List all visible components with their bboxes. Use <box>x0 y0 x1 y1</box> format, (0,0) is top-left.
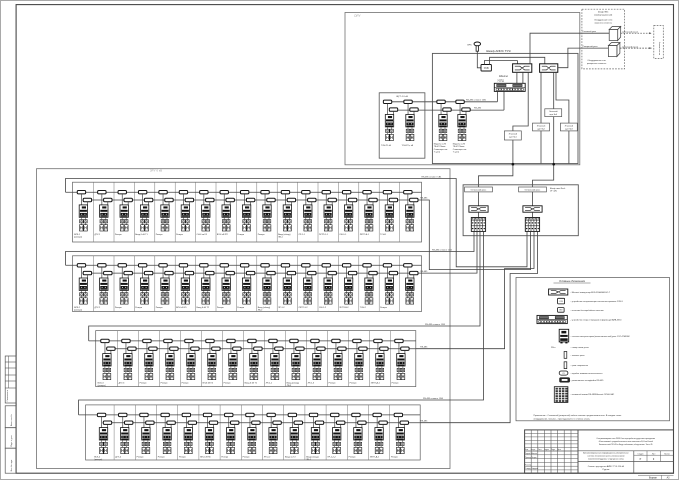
svg-text:- клеммный зажим RS-485/Ethern: - клеммный зажим RS-485/Ethernet СК500-2… <box>571 393 615 396</box>
meter row3 cell4 <box>161 339 179 384</box>
svg-text:Специализированная ЗИФ-3 по пе: Специализированная ЗИФ-3 по переработке … <box>596 437 655 440</box>
meter row2 cell15 <box>360 264 378 309</box>
ethernet switch SW1 <box>513 64 532 73</box>
USV time sync unit <box>481 65 491 72</box>
svg-text:RS-485 сегмент СВ2: RS-485 сегмент СВ2 <box>432 249 453 251</box>
divider row2 <box>93 256 95 312</box>
to-all-rooms dashed box <box>654 26 664 59</box>
svg-text:RS-485 сегмент СВ1: RS-485 сегмент СВ1 <box>422 176 443 178</box>
divider row3 <box>221 331 223 387</box>
svg-text:ЛР-1-3: ЛР-1-3 <box>308 383 315 385</box>
wire X1 to ports <box>478 212 480 217</box>
svg-text:Резерв: Резерв <box>158 457 166 459</box>
svg-text:Рудник: Рудник <box>603 469 610 471</box>
meter row3 cell6 <box>203 339 221 384</box>
svg-text:Согласовано: Согласовано <box>7 390 9 401</box>
tag box floor 2 <box>533 123 550 131</box>
divider row1 <box>378 182 380 242</box>
divider row1 <box>174 182 176 242</box>
cube head node <box>609 27 621 30</box>
svg-text:Ethernet: Ethernet <box>499 75 508 78</box>
divider row1 <box>154 182 156 242</box>
svg-text:ВЛ-6 кВ РП: ВЛ-6 кВ РП <box>217 234 228 236</box>
margin box Взам. инв. № <box>5 406 16 428</box>
svg-text:RS-485: RS-485 <box>420 346 428 348</box>
svg-text:ЛКТП-1-2: ЛКТП-1-2 <box>299 307 309 309</box>
svg-text:Резерв: Резерв <box>380 307 388 309</box>
meter row2 cell5 <box>156 264 174 309</box>
svg-text:«Коксохимия» градообогатительн: «Коксохимия» градообогатительного компле… <box>599 440 653 443</box>
svg-text:ЛР-1-2: ЛР-1-2 <box>278 307 285 309</box>
meter row1 cell3 <box>115 191 132 236</box>
divider row2 <box>297 256 299 312</box>
divider row1 <box>337 182 339 242</box>
svg-text:- Ethernet коммутатор EDS-516A: - Ethernet коммутатор EDS-516A-MM-SC-T <box>571 291 611 294</box>
bus1 row 1 <box>66 191 422 193</box>
divider row4 <box>240 405 242 460</box>
svg-text:ДГУ-4: ДГУ-4 <box>115 457 122 459</box>
title block outer <box>525 430 674 473</box>
bus1 row 2 <box>66 264 422 266</box>
meter row3 cell15 <box>392 339 410 384</box>
divider row4 <box>219 405 221 460</box>
bus RS-485 segment SV5 <box>385 101 497 103</box>
svg-text:Кол.уч: Кол.уч <box>531 449 536 451</box>
svg-text:Резерв: Резерв <box>243 457 251 459</box>
divider row3 <box>368 331 370 387</box>
svg-text:ТСН-Р2,х кВ: ТСН-Р2,х кВ <box>402 145 414 147</box>
meter row4 cell8 <box>243 413 261 458</box>
svg-text:- коробка зажимов испытательна: - коробка зажимов испытательная <box>571 373 603 375</box>
svg-text:Резерв: Резерв <box>258 234 266 236</box>
svg-text:- устройство синхронизации сис: - устройство синхронизации системного вр… <box>571 300 624 303</box>
svg-text:ЛР-2-1: ЛР-2-1 <box>266 383 273 385</box>
format cell <box>638 474 674 476</box>
meter row1 cell2 <box>95 191 113 236</box>
divider row2 <box>399 256 401 312</box>
meter SHUT-4 <box>453 100 470 153</box>
svg-text:ЗКТП-А-1: ЗКТП-А-1 <box>371 382 381 385</box>
svg-text:СШ-1-2: СШ-1-2 <box>319 307 327 309</box>
svg-text:щит №1: щит №1 <box>509 136 517 139</box>
meter row1 cell7 <box>197 191 215 236</box>
svg-text:Автоматизированная информацион: Автоматизированная информационно-измерит… <box>583 452 628 455</box>
meter row4 cell5 <box>179 413 197 458</box>
GPS antenna <box>474 42 481 46</box>
svg-text:Резерв: Резерв <box>115 307 123 309</box>
svg-text:СШ-1-1: СШ-1-1 <box>339 234 347 236</box>
divider row2 <box>215 256 217 312</box>
svg-text:RS-485: RS-485 <box>420 420 428 422</box>
wire bus SV2 row2 to PB1 <box>66 231 475 265</box>
legend UPS <box>558 308 565 313</box>
meter row2 cell1 <box>74 264 92 312</box>
svg-text:оборудования, показан - прокла: оборудования, показан - прокладывается в… <box>534 419 591 421</box>
meter row4 cell2 <box>115 413 132 458</box>
wire RS-485 row3 to PB2 <box>416 231 534 348</box>
svg-text:Резерв: Резерв <box>391 457 399 459</box>
divider row1 <box>358 182 360 242</box>
meter row4 cell4 <box>158 413 176 458</box>
port block PB2 <box>525 218 539 232</box>
meter row3 cell10 <box>287 339 305 387</box>
divider row4 <box>198 405 200 460</box>
divider row3 <box>179 331 181 387</box>
divider row4 <box>368 405 370 460</box>
meter row4 cell11 <box>306 413 324 461</box>
divider row2 <box>113 256 115 312</box>
media converter X1 <box>469 206 488 212</box>
divider row1 <box>276 182 278 242</box>
meter row3 cell9 <box>266 339 284 384</box>
svg-text:Лист: Лист <box>538 449 542 451</box>
title block project name cell <box>578 450 674 452</box>
svg-text:ЛКТП-В-2: ЛКТП-В-2 <box>339 307 349 309</box>
wire USV to switch 1 <box>484 61 517 65</box>
row 3 feeder box <box>96 331 416 387</box>
svg-text:Оптический кросс: Оптический кросс <box>525 189 541 192</box>
svg-text:ДГУ-1: ДГУ-1 <box>95 234 102 236</box>
meter row1 cell13 <box>319 191 337 236</box>
divider row1 <box>297 182 299 242</box>
svg-text:Резерв: Резерв <box>329 383 337 385</box>
junction dot A <box>512 163 515 166</box>
wire bus SV3 row3 to PB1 <box>89 231 480 341</box>
legend ethernet switch <box>549 289 568 295</box>
svg-text:Резерв: Резерв <box>237 307 245 309</box>
meter row1 cell9 <box>237 191 255 236</box>
meter row3 cell7 <box>224 339 242 384</box>
svg-text:Инв. № подл.: Инв. № подл. <box>10 459 13 471</box>
svg-text:Резервный узел: Резервный узел <box>583 45 599 48</box>
svg-text:Схема структурная АИИС ТУЭ 110: Схема структурная АИИС ТУЭ 110 кВ <box>588 465 625 468</box>
divider row4 <box>262 405 264 460</box>
margin box Инв. № подл. <box>5 448 16 473</box>
bus1 row 3 <box>89 340 416 342</box>
svg-text:Резерв: Резерв <box>140 383 148 385</box>
svg-text:- номер точки учета: - номер точки учета <box>571 347 590 349</box>
svg-text:Т цепи: Т цепи <box>453 151 459 153</box>
bus2 row 2 <box>82 272 421 274</box>
meter row2 cell12 <box>299 264 317 309</box>
divider row1 <box>195 182 197 242</box>
svg-text:Резерв: Резерв <box>156 234 164 236</box>
meter SHUT-1 <box>381 100 398 147</box>
svg-text:РН-х: РН-х <box>551 347 555 349</box>
divider row1 <box>113 182 115 242</box>
divider row1 <box>133 182 135 242</box>
divider row4 <box>346 405 348 460</box>
svg-text:Примечание - Стояковый (резерв: Примечание - Стояковый (резервный) кабел… <box>534 414 623 417</box>
svg-text:система технического учета эле: система технического учета электроэнерги… <box>587 456 624 458</box>
meter row1 cell16 <box>380 191 398 236</box>
meter row3 cell12 <box>329 339 347 384</box>
svg-text:- устройство сбора и передачи: - устройство сбора и передачи информации… <box>571 319 623 322</box>
svg-text:ЛКТП-В-1: ЛКТП-В-1 <box>360 234 370 236</box>
svg-text:Резерв: Резерв <box>179 457 187 459</box>
svg-text:Условные обозначения: Условные обозначения <box>559 280 586 283</box>
wire RS-485 row4 to PB2 <box>420 231 537 422</box>
wire RS-485 row2 to PB1 <box>422 231 478 273</box>
svg-text:ДГУ-3: ДГУ-3 <box>119 383 126 385</box>
meter row4 cell10 <box>285 413 303 458</box>
wire cross 1 <box>478 192 480 206</box>
meter row3 cell2 <box>119 339 137 384</box>
meter row4 cell1 <box>94 413 112 461</box>
svg-text:ОРУ: ОРУ <box>354 14 362 18</box>
svg-text:Оборудование сети: Оборудование сети <box>594 20 612 22</box>
svg-text:RS-485 сегмент СВ4: RS-485 сегмент СВ4 <box>423 398 444 400</box>
svg-text:ТСН-2: ТСН-2 <box>360 307 367 309</box>
legend box <box>516 278 670 421</box>
row 4 feeder box <box>86 405 421 460</box>
svg-text:Оптический кросс: Оптический кросс <box>471 189 487 192</box>
svg-text:RS-485 сегмент СВ3: RS-485 сегмент СВ3 <box>425 324 446 326</box>
divider row1 <box>93 182 95 242</box>
meter row2 cell11 <box>278 264 296 309</box>
meter row2 cell4 <box>135 264 153 309</box>
meter row3 cell3 <box>140 339 158 384</box>
divider row4 <box>134 405 136 460</box>
svg-text:Резерв: Резерв <box>349 457 357 459</box>
svg-text:Резерв: Резерв <box>221 457 229 459</box>
wire bus SV4 row4 to PB1 <box>79 231 484 415</box>
svg-text:Этажный: Этажный <box>549 110 557 113</box>
meter row3 cell14 <box>371 339 389 384</box>
legend RS-485 splitter <box>560 378 570 382</box>
svg-text:Шкаф АИИС ТУЭ: Шкаф АИИС ТУЭ <box>486 49 511 53</box>
row 1 feeder box <box>73 182 422 242</box>
meter row4 cell15 <box>391 413 409 458</box>
svg-text:Лист: Лист <box>652 453 656 455</box>
divider row2 <box>317 256 319 312</box>
divider row2 <box>235 256 237 312</box>
bus2 row 4 <box>103 422 421 424</box>
svg-text:Резерв: Резерв <box>224 383 232 385</box>
title block left grid <box>530 430 532 473</box>
meter row1 cell17 <box>404 191 418 232</box>
svg-text:ЛКТП-1-1: ЛКТП-1-1 <box>319 234 329 236</box>
divider row4 <box>156 405 158 460</box>
cube reserve node <box>608 43 620 46</box>
svg-text:Взам. инв. №: Взам. инв. № <box>10 414 13 426</box>
divider row2 <box>195 256 197 312</box>
svg-text:Изм.: Изм. <box>525 449 529 451</box>
svg-text:RS-485: RS-485 <box>420 271 428 273</box>
svg-text:Ввод 6 кВ Т1: Ввод 6 кВ Т1 <box>135 234 148 236</box>
svg-text:Резерв: Резерв <box>156 307 164 309</box>
svg-text:Оборудование сети: Оборудование сети <box>587 60 605 62</box>
wire USPD to bus SV5 <box>496 91 498 101</box>
divider row3 <box>200 331 202 387</box>
SHUT cabinet box <box>379 93 425 158</box>
svg-text:(коммутационный): (коммутационный) <box>594 13 612 16</box>
divider row3 <box>158 331 160 387</box>
svg-text:- счетчик электроэнергии (вычи: - счетчик электроэнергии (вычислительный… <box>571 335 630 338</box>
svg-text:RS-485: RS-485 <box>474 108 482 110</box>
svg-text:- источник бесперебойного пита: - источник бесперебойного питания <box>571 309 604 312</box>
svg-text:RS-485: RS-485 <box>420 198 428 200</box>
rack server box <box>463 185 578 236</box>
wire X2 to ports <box>532 212 534 217</box>
divider row4 <box>177 405 179 460</box>
meter row4 cell6 <box>200 413 218 458</box>
meter row1 cell15 <box>360 191 378 236</box>
svg-text:Резерв: Резерв <box>161 383 169 385</box>
divider row2 <box>256 256 258 312</box>
divider row3 <box>116 331 118 387</box>
bus RS-485 (SHUT) <box>391 109 504 111</box>
wire cross 2 <box>532 192 534 206</box>
meter row2 cell14 <box>339 264 357 309</box>
bus2 row 3 <box>106 348 416 350</box>
divider row4 <box>325 405 327 460</box>
divider row3 <box>305 331 307 387</box>
svg-text:ДГУ-2: ДГУ-2 <box>95 307 102 309</box>
divider row2 <box>337 256 339 312</box>
svg-text:Резерв: Резерв <box>176 234 184 236</box>
svg-text:Н.контр.: Н.контр. <box>525 464 532 466</box>
svg-text:- разветвитель интерфейса RS-4: - разветвитель интерфейса RS-485 <box>571 379 605 382</box>
svg-text:Шкаф ЛВС: Шкаф ЛВС <box>598 11 609 14</box>
meter row2 cell16 <box>380 264 398 309</box>
meter row4 cell13 <box>349 413 367 458</box>
legend voltage circuits <box>564 362 567 369</box>
svg-text:Головной узел: Головной узел <box>583 30 597 33</box>
meter row4 cell12 <box>327 413 345 458</box>
svg-text:RS-485 сегмент СВ5: RS-485 сегмент СВ5 <box>466 99 487 101</box>
USPD data collector <box>494 83 525 91</box>
wire SW1 to junction A <box>479 72 529 187</box>
title block stage grid <box>633 451 635 473</box>
meter SHUT-3 <box>434 100 451 153</box>
divider row3 <box>263 331 265 387</box>
meter row2 cell8 <box>217 264 235 309</box>
meter row1 cell4 <box>135 191 153 236</box>
svg-text:ЛР-1-2-2: ЛР-1-2-2 <box>327 457 336 459</box>
meter row4 cell3 <box>137 413 155 458</box>
svg-text:Этажный: Этажный <box>565 124 573 127</box>
legend terminal clamp <box>554 387 568 403</box>
wire USPD to bus RS-485 <box>503 91 505 110</box>
divider row2 <box>358 256 360 312</box>
legend test terminal box <box>559 371 568 375</box>
svg-text:УСПД: УСПД <box>497 81 504 83</box>
svg-text:(резерв): (резерв) <box>74 310 82 312</box>
divider row3 <box>137 331 139 387</box>
svg-text:Этажный: Этажный <box>509 133 517 136</box>
margin column upper (approvals) <box>5 356 16 403</box>
svg-text:Резерв: Резерв <box>237 234 245 236</box>
svg-text:Иванов: Иванов <box>531 453 537 455</box>
cabinet AIIS TUE box <box>432 53 578 163</box>
svg-text:ВЛ-6 кВ К5: ВЛ-6 кВ К5 <box>203 383 214 385</box>
meter row4 cell7 <box>221 413 239 458</box>
wire SW2 uplink to LAN reserve node <box>558 48 609 68</box>
meter row2 cell17 <box>404 264 418 305</box>
wire GPS to USV <box>477 51 481 68</box>
svg-text:Кокпатасской ПО-69-и Барун-обь: Кокпатасской ПО-69-и Барун-обьемом, п/от… <box>599 443 653 446</box>
svg-text:ЛР-1-1: ЛР-1-1 <box>299 234 306 236</box>
svg-text:ТСН-1: ТСН-1 <box>380 234 387 236</box>
svg-text:Листов: Листов <box>664 453 670 455</box>
svg-text:Подп.: Подп. <box>551 449 556 451</box>
media converter X2 <box>523 206 542 212</box>
divider row2 <box>378 256 380 312</box>
junction dot B <box>552 163 555 166</box>
divider row1 <box>317 182 319 242</box>
divider row4 <box>283 405 285 460</box>
row 2 feeder box <box>73 256 422 312</box>
port block PB1 <box>471 218 485 232</box>
svg-text:ЩУТ-1 6 кВ: ЩУТ-1 6 кВ <box>396 96 408 98</box>
svg-text:ВЛ-6 кВ К5: ВЛ-6 кВ К5 <box>176 307 187 309</box>
ORU switchyard box <box>345 13 580 165</box>
divider row4 <box>389 405 391 460</box>
svg-text:Ввод 6 кВ Т2: Ввод 6 кВ Т2 <box>197 307 210 309</box>
svg-text:- цепи напряжения: - цепи напряжения <box>571 365 588 367</box>
wire RS-485 row1 to PB2 <box>422 200 531 270</box>
svg-text:(резерв): (резерв) <box>94 459 102 461</box>
meter row2 cell9 <box>237 264 255 309</box>
legend USV <box>558 298 565 304</box>
svg-text:Ввод 6 кВ Т1: Ввод 6 кВ Т1 <box>245 383 258 385</box>
svg-text:Этажный: Этажный <box>537 124 545 127</box>
meter row1 cell14 <box>339 191 357 236</box>
meter row2 cell10 <box>258 264 276 312</box>
wire USV to switch 2 <box>490 57 545 64</box>
svg-text:Резерв: Резерв <box>115 234 123 236</box>
svg-text:(резерв): (резерв) <box>98 385 106 387</box>
svg-text:Резерв: Резерв <box>137 457 145 459</box>
svg-text:19" 42U: 19" 42U <box>550 191 558 193</box>
margin box Подп. и дата <box>5 428 16 449</box>
meter row1 cell11 <box>278 191 296 239</box>
svg-text:УСВ: УСВ <box>484 67 489 70</box>
meter row4 cell14 <box>370 413 388 458</box>
svg-text:Т цепи: Т цепи <box>434 151 440 153</box>
meter row2 cell6 <box>176 264 194 309</box>
svg-text:во все помещ.: во все помещ. <box>659 41 661 55</box>
divider row3 <box>389 331 391 387</box>
wire SW2 to junction B <box>533 72 554 187</box>
svg-text:Подп. и дата: Подп. и дата <box>11 434 13 446</box>
meter row3 cell1 <box>98 339 116 387</box>
svg-text:верхнего сегмента: верхнего сегмента <box>595 22 613 24</box>
meter row2 cell7 <box>197 264 215 309</box>
svg-text:Резерв: Резерв <box>182 383 190 385</box>
svg-text:- токовые цепи: - токовые цепи <box>571 355 585 357</box>
legend current circuits <box>564 352 567 359</box>
divider row2 <box>133 256 135 312</box>
wire SW2 tag 2 <box>540 72 542 163</box>
divider row1 <box>399 182 401 242</box>
meter row3 cell8 <box>245 339 263 384</box>
meter row3 cell5 <box>182 339 200 384</box>
meter row2 cell13 <box>319 264 337 309</box>
wire SW1 uplink to LAN head node <box>530 33 609 64</box>
svg-text:щит №4: щит №4 <box>550 113 558 116</box>
optical cross label box 1 <box>465 187 493 192</box>
dashed arrow 1 <box>621 32 652 34</box>
svg-text:щит №2: щит №2 <box>537 127 545 130</box>
meter row3 cell11 <box>308 339 326 384</box>
svg-text:ВЛ-6 кВ К6: ВЛ-6 кВ К6 <box>200 457 211 459</box>
divider row4 <box>113 405 115 460</box>
ethernet switch SW2 <box>540 64 558 73</box>
svg-text:кабельный канал: кабельный канал <box>622 45 639 48</box>
svg-text:Резерв: Резерв <box>217 307 225 309</box>
